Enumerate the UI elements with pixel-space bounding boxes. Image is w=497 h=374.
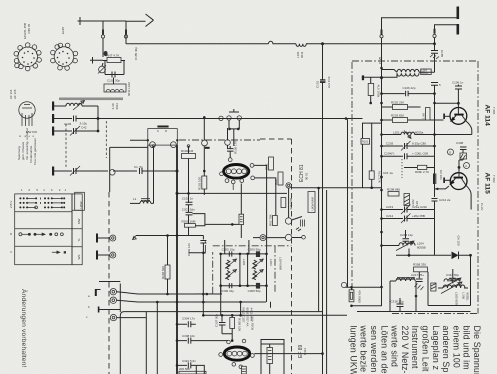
capacitor C306 31p: [229, 283, 232, 288]
main vertical bus V1 (thick): [176, 145, 178, 374]
main notes paragraph: [348, 325, 482, 374]
RC parallel link: [193, 214, 205, 226]
AVC chain wire: [205, 223, 239, 225]
band switch S1 box: [157, 126, 168, 128]
coil L306 with arrow: [443, 285, 465, 288]
chassis bar FM box: [362, 75, 364, 80]
ECC85 pins inside: [226, 169, 231, 174]
UKW-MW switch label box: [308, 192, 315, 213]
output transformer box: [261, 340, 284, 374]
coil L305 with arrow: [444, 279, 460, 282]
plug pin P4: [434, 29, 436, 34]
switch coil contact: [301, 220, 305, 227]
capacitor C305 50p: [256, 283, 260, 289]
wire from tube pin: [240, 184, 242, 239]
tick digits above table: [21, 188, 67, 192]
IF core hatched: [431, 283, 436, 291]
filter bottom wire: [221, 285, 267, 287]
EF89 pins outside: [227, 340, 231, 344]
dial pointer bar (gray): [59, 98, 123, 101]
contact row WS: [52, 251, 66, 253]
speaker terminal bracket: [96, 289, 101, 291]
antenna terminal bar T1: [52, 102, 54, 111]
TA terminal bar lower: [96, 251, 98, 260]
AVC wire: [177, 192, 287, 194]
capacitor C112: [227, 149, 234, 152]
capacitor C207 50n: [200, 236, 206, 253]
capacitor C212: [432, 188, 438, 255]
resistor R107: [368, 84, 374, 96]
resistor R306 47K: [346, 286, 382, 288]
antenna coil L104: [54, 105, 66, 107]
filter coil L301a: [226, 260, 230, 269]
IF transformer core: [404, 194, 410, 206]
resistor R206 2,7K: [404, 167, 417, 169]
node H1/V2: [321, 42, 324, 45]
wire crossover hump: [269, 41, 273, 44]
volume pot wire with arrow: [136, 235, 189, 237]
plug pin P1: [102, 21, 104, 30]
AM input tee: [90, 57, 103, 64]
resistor R104: [369, 171, 374, 179]
wire dipole to plug upper: [382, 18, 457, 30]
trimmer C107: [54, 168, 108, 174]
trimmer capacitor C100: [99, 66, 106, 73]
pentode EF89 envelope (thick oval): [224, 347, 249, 360]
coil L102 with core: [104, 84, 126, 92]
pilot lamp: [341, 282, 346, 287]
circled C test point: [464, 163, 470, 169]
chassis dash-dot top: [352, 60, 478, 62]
output box outline: [120, 312, 322, 374]
resistor R105: [269, 157, 274, 170]
filter coil L303a: [253, 260, 257, 269]
filter boundary dash-dot: [196, 240, 292, 294]
contact row TA: [19, 233, 63, 236]
antenna terminal bar T4: [52, 167, 54, 176]
ratio detector wire: [396, 254, 451, 256]
circled B test point: [260, 235, 266, 241]
capacitor C102 30p: [112, 72, 115, 78]
contact rows band 1: [19, 197, 65, 208]
FM module box edge: [363, 123, 382, 188]
pickup stub: [98, 307, 100, 313]
dipole antenna rod upper: [457, 7, 460, 20]
speaker jack 1: [110, 289, 116, 295]
antenna terminal bar T2: [52, 114, 54, 123]
capacitor C185: [431, 51, 438, 54]
feedthrough connector on dashed boundary: [286, 183, 291, 188]
node wires y302: [156, 293, 242, 304]
notes text column (small print): [17, 127, 37, 165]
trimmer C105: [54, 128, 98, 134]
IF filter block: [196, 240, 292, 315]
small switch S2: [229, 109, 239, 112]
wire H3 corner down: [346, 119, 348, 288]
wire RC pair: [105, 61, 124, 75]
filter coil L303b: [253, 271, 257, 280]
switch contact K3: [202, 140, 208, 146]
TA jack upper: [110, 235, 116, 241]
module bottom edge: [357, 311, 471, 313]
transistor Q2 AF115: [435, 160, 472, 210]
mid vertical wire: [318, 188, 320, 312]
band switch table: [9, 188, 84, 265]
tube socket view V1 (ECH81/EF89/EABC80): [14, 43, 41, 71]
ground bar: [205, 147, 210, 149]
gang link dotted: [401, 159, 403, 178]
resistor R103: [202, 176, 207, 189]
connector on wire: [219, 116, 223, 120]
diode GA100: [452, 252, 459, 260]
V4 junction nodes: [380, 77, 383, 289]
feed wire: [99, 281, 120, 283]
transistor Q1 AF114: [443, 102, 472, 135]
resistor R301: [281, 198, 286, 208]
main supply bus V4: [381, 38, 383, 306]
plug pin P3: [381, 30, 383, 35]
detector circuit C218: [390, 278, 415, 281]
chassis dash-dot right D2: [477, 61, 479, 314]
switch wiper W1: [285, 218, 291, 224]
capacitor C104 5: [431, 83, 438, 86]
wire oval to R210: [254, 353, 322, 355]
plug pin P2: [125, 21, 127, 30]
resistor R210: [242, 366, 247, 374]
ECC85 pins outside: [228, 158, 232, 162]
antenna terminal bar T3: [52, 127, 54, 136]
resistor R205 820: [165, 265, 170, 279]
circled D test point: [448, 149, 454, 155]
chassis dashed boundary left: [108, 192, 110, 374]
node H1 end: [433, 42, 436, 45]
resistor R106: [278, 172, 283, 185]
filter drops: [221, 240, 267, 315]
resistor R202b: [239, 214, 244, 224]
capacitor C101: [320, 79, 325, 83]
filter top wire: [221, 253, 267, 255]
detector box wires: [428, 272, 471, 306]
main AM bus H1: [126, 21, 435, 44]
TA terminal bar upper: [96, 234, 98, 243]
speaker jack 3: [110, 314, 116, 320]
FM dipole arrow: [126, 14, 154, 27]
node V1 top: [176, 170, 179, 173]
gang link (dashed): [66, 121, 106, 168]
AM antenna ground terminal: [78, 17, 83, 25]
resistor R204: [426, 108, 431, 121]
resistor R210b: [267, 348, 273, 364]
TA jack lower: [110, 252, 116, 258]
output box inner edges: [146, 312, 157, 374]
capacitor C103: [54, 116, 363, 122]
coil L204 with arrow: [382, 245, 400, 247]
resistor R101 label: [361, 139, 370, 145]
chassis dash-dot boundary mid: [179, 139, 260, 141]
triode ECC85 envelope (thick oval): [224, 165, 249, 179]
dashed module boundary (ECH81): [260, 139, 292, 374]
chassis dash-dot bottom D3: [392, 313, 478, 315]
wire dipole to plug lower: [435, 25, 457, 29]
filter coil L301b: [226, 271, 230, 280]
switch contact K4: [225, 140, 231, 146]
dipole antenna rod lower: [457, 24, 460, 35]
filter cell frames: [221, 254, 267, 294]
speaker jack 2: [110, 297, 116, 303]
UKW box edge left: [110, 147, 148, 192]
transistor pinout view AF114/AF115: [18, 102, 35, 137]
small box at output: [196, 365, 204, 374]
terminal rail: [119, 284, 121, 313]
coil L103 transformer: [397, 69, 419, 72]
EF89 pins inside: [227, 351, 232, 356]
wire y315: [203, 314, 347, 316]
parallel vertical V2b: [326, 190, 328, 374]
box feedthrough connector: [110, 170, 116, 176]
coil L101: [296, 44, 306, 47]
switch wiper W2: [285, 234, 291, 240]
chassis dash-dot boundary D1: [351, 62, 353, 290]
paper grain: [0, 0, 1, 1]
main vertical V2: [322, 44, 324, 374]
resistor R302: [273, 216, 278, 226]
resistor R209 10K: [230, 317, 235, 328]
tube socket view V2 (EL95): [51, 43, 78, 70]
wire ground to plugs: [83, 20, 127, 22]
